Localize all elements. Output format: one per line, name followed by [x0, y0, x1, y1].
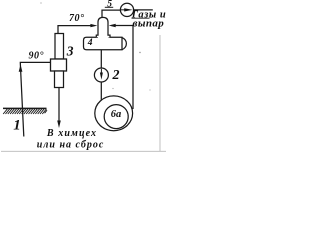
dome on vessel [96, 17, 110, 37]
svg-text:6а: 6а [111, 109, 122, 120]
svg-text:4: 4 [87, 38, 93, 48]
label 5 underline [105, 6, 113, 8]
tank 6a inner circle [104, 105, 128, 129]
svg-text:или на сброс: или на сброс [37, 140, 105, 151]
vessel right cap [122, 38, 126, 50]
flow meter circle 2 [94, 68, 108, 82]
ejector circle 5 [120, 3, 133, 16]
ground hatch [3, 109, 47, 114]
scan artifact bottom border [1, 150, 166, 152]
wire: dome top pipe [102, 10, 121, 17]
scan artifact right border [159, 35, 161, 151]
wire: drain to tank [100, 82, 102, 101]
svg-text:5: 5 [107, 0, 112, 9]
svg-text:90°: 90° [29, 51, 45, 62]
wire: return pipe from tank to dome [112, 26, 134, 110]
column K upper shell 3 [55, 34, 64, 60]
wire: gas outlet line [134, 9, 153, 11]
arrowhead down outlet [57, 121, 61, 129]
svg-text:3: 3 [66, 43, 74, 58]
column base box [51, 59, 67, 71]
arrowhead up on riser [19, 65, 23, 72]
svg-text:1: 1 [13, 118, 21, 134]
arrow inside circle 5 [121, 9, 126, 11]
wire: outlet down [58, 88, 60, 122]
tank 6a outer shell [95, 96, 133, 131]
wire: vessel drain to meter [100, 50, 102, 68]
svg-text:70°: 70° [69, 13, 85, 24]
wire: underground riser pipe [20, 62, 50, 136]
underline under gazy [132, 17, 150, 19]
column lower stub [55, 71, 64, 88]
vessel 4 body [84, 37, 123, 50]
scan speckles [139, 52, 140, 53]
svg-text:2: 2 [112, 68, 120, 83]
arrowhead into dome right [109, 24, 116, 27]
arrowhead into dome left [90, 24, 97, 27]
svg-text:В химцех: В химцех [46, 128, 97, 139]
svg-text:выпар: выпар [133, 17, 165, 29]
arrow inside circle 2 [100, 69, 102, 74]
wire: column top pipe to dome [58, 26, 93, 34]
ground line [3, 107, 47, 109]
